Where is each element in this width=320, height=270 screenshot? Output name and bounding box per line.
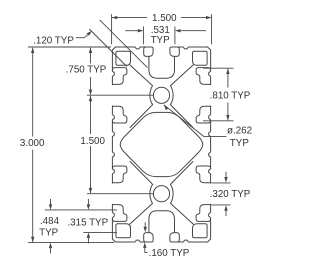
svg-text:.810 TYP: .810 TYP bbox=[210, 90, 251, 101]
dim .531 typ bbox=[125, 25, 206, 46]
left slot1 pockets bbox=[112, 68, 127, 123]
dim .320 typ bbox=[210, 172, 251, 216]
bottom slot cavity bbox=[144, 211, 180, 242]
profile left face bbox=[112, 50, 114, 239]
central octagon void bbox=[120, 112, 203, 176]
svg-text:3.000: 3.000 bbox=[20, 138, 45, 149]
svg-text:TYP: TYP bbox=[151, 35, 171, 46]
svg-text:.315 TYP: .315 TYP bbox=[67, 218, 108, 229]
right slot1 pockets bbox=[196, 68, 211, 123]
webs around top hole bbox=[130, 65, 193, 128]
svg-text:TYP: TYP bbox=[39, 228, 59, 239]
corner square void bottom-left bbox=[116, 224, 131, 238]
dim .484 typ bbox=[39, 199, 117, 253]
svg-text:.484: .484 bbox=[40, 216, 60, 227]
dim .120 typ bbox=[33, 20, 147, 68]
dim .810 typ bbox=[203, 68, 251, 121]
top slot cavity bbox=[144, 47, 180, 78]
dim .750 typ bbox=[66, 48, 154, 96]
svg-text:.120 TYP: .120 TYP bbox=[33, 36, 74, 47]
dim .315 typ bbox=[67, 199, 117, 243]
top center hole bbox=[153, 87, 169, 103]
svg-text:1.500: 1.500 bbox=[80, 136, 105, 147]
corner square void bottom-right bbox=[193, 224, 208, 238]
corner square void top-left bbox=[116, 51, 131, 65]
svg-text:1.500: 1.500 bbox=[152, 13, 177, 24]
dim 3.000 left bbox=[20, 47, 114, 242]
svg-text:TYP: TYP bbox=[230, 138, 250, 149]
corner square void top-right bbox=[193, 51, 208, 65]
right slot2 pockets bbox=[196, 166, 211, 221]
dim 1.500 top bbox=[112, 13, 212, 44]
dim .160 typ bbox=[143, 222, 190, 259]
dim dia .262 bbox=[164, 105, 252, 149]
svg-text:.160 TYP: .160 TYP bbox=[149, 248, 190, 259]
profile right face bbox=[209, 50, 211, 239]
dim 1.500 mid bbox=[80, 96, 153, 194]
profile bottom face bbox=[115, 240, 207, 242]
bottom center hole bbox=[153, 186, 169, 202]
svg-text:.320 TYP: .320 TYP bbox=[210, 189, 251, 200]
corner chamfers bbox=[112, 47, 210, 242]
svg-text:.750 TYP: .750 TYP bbox=[66, 65, 107, 76]
webs around bottom hole bbox=[130, 162, 193, 225]
left slot2 pockets bbox=[112, 166, 127, 221]
svg-text:ø.262: ø.262 bbox=[227, 125, 252, 136]
profile top face bbox=[115, 47, 207, 49]
